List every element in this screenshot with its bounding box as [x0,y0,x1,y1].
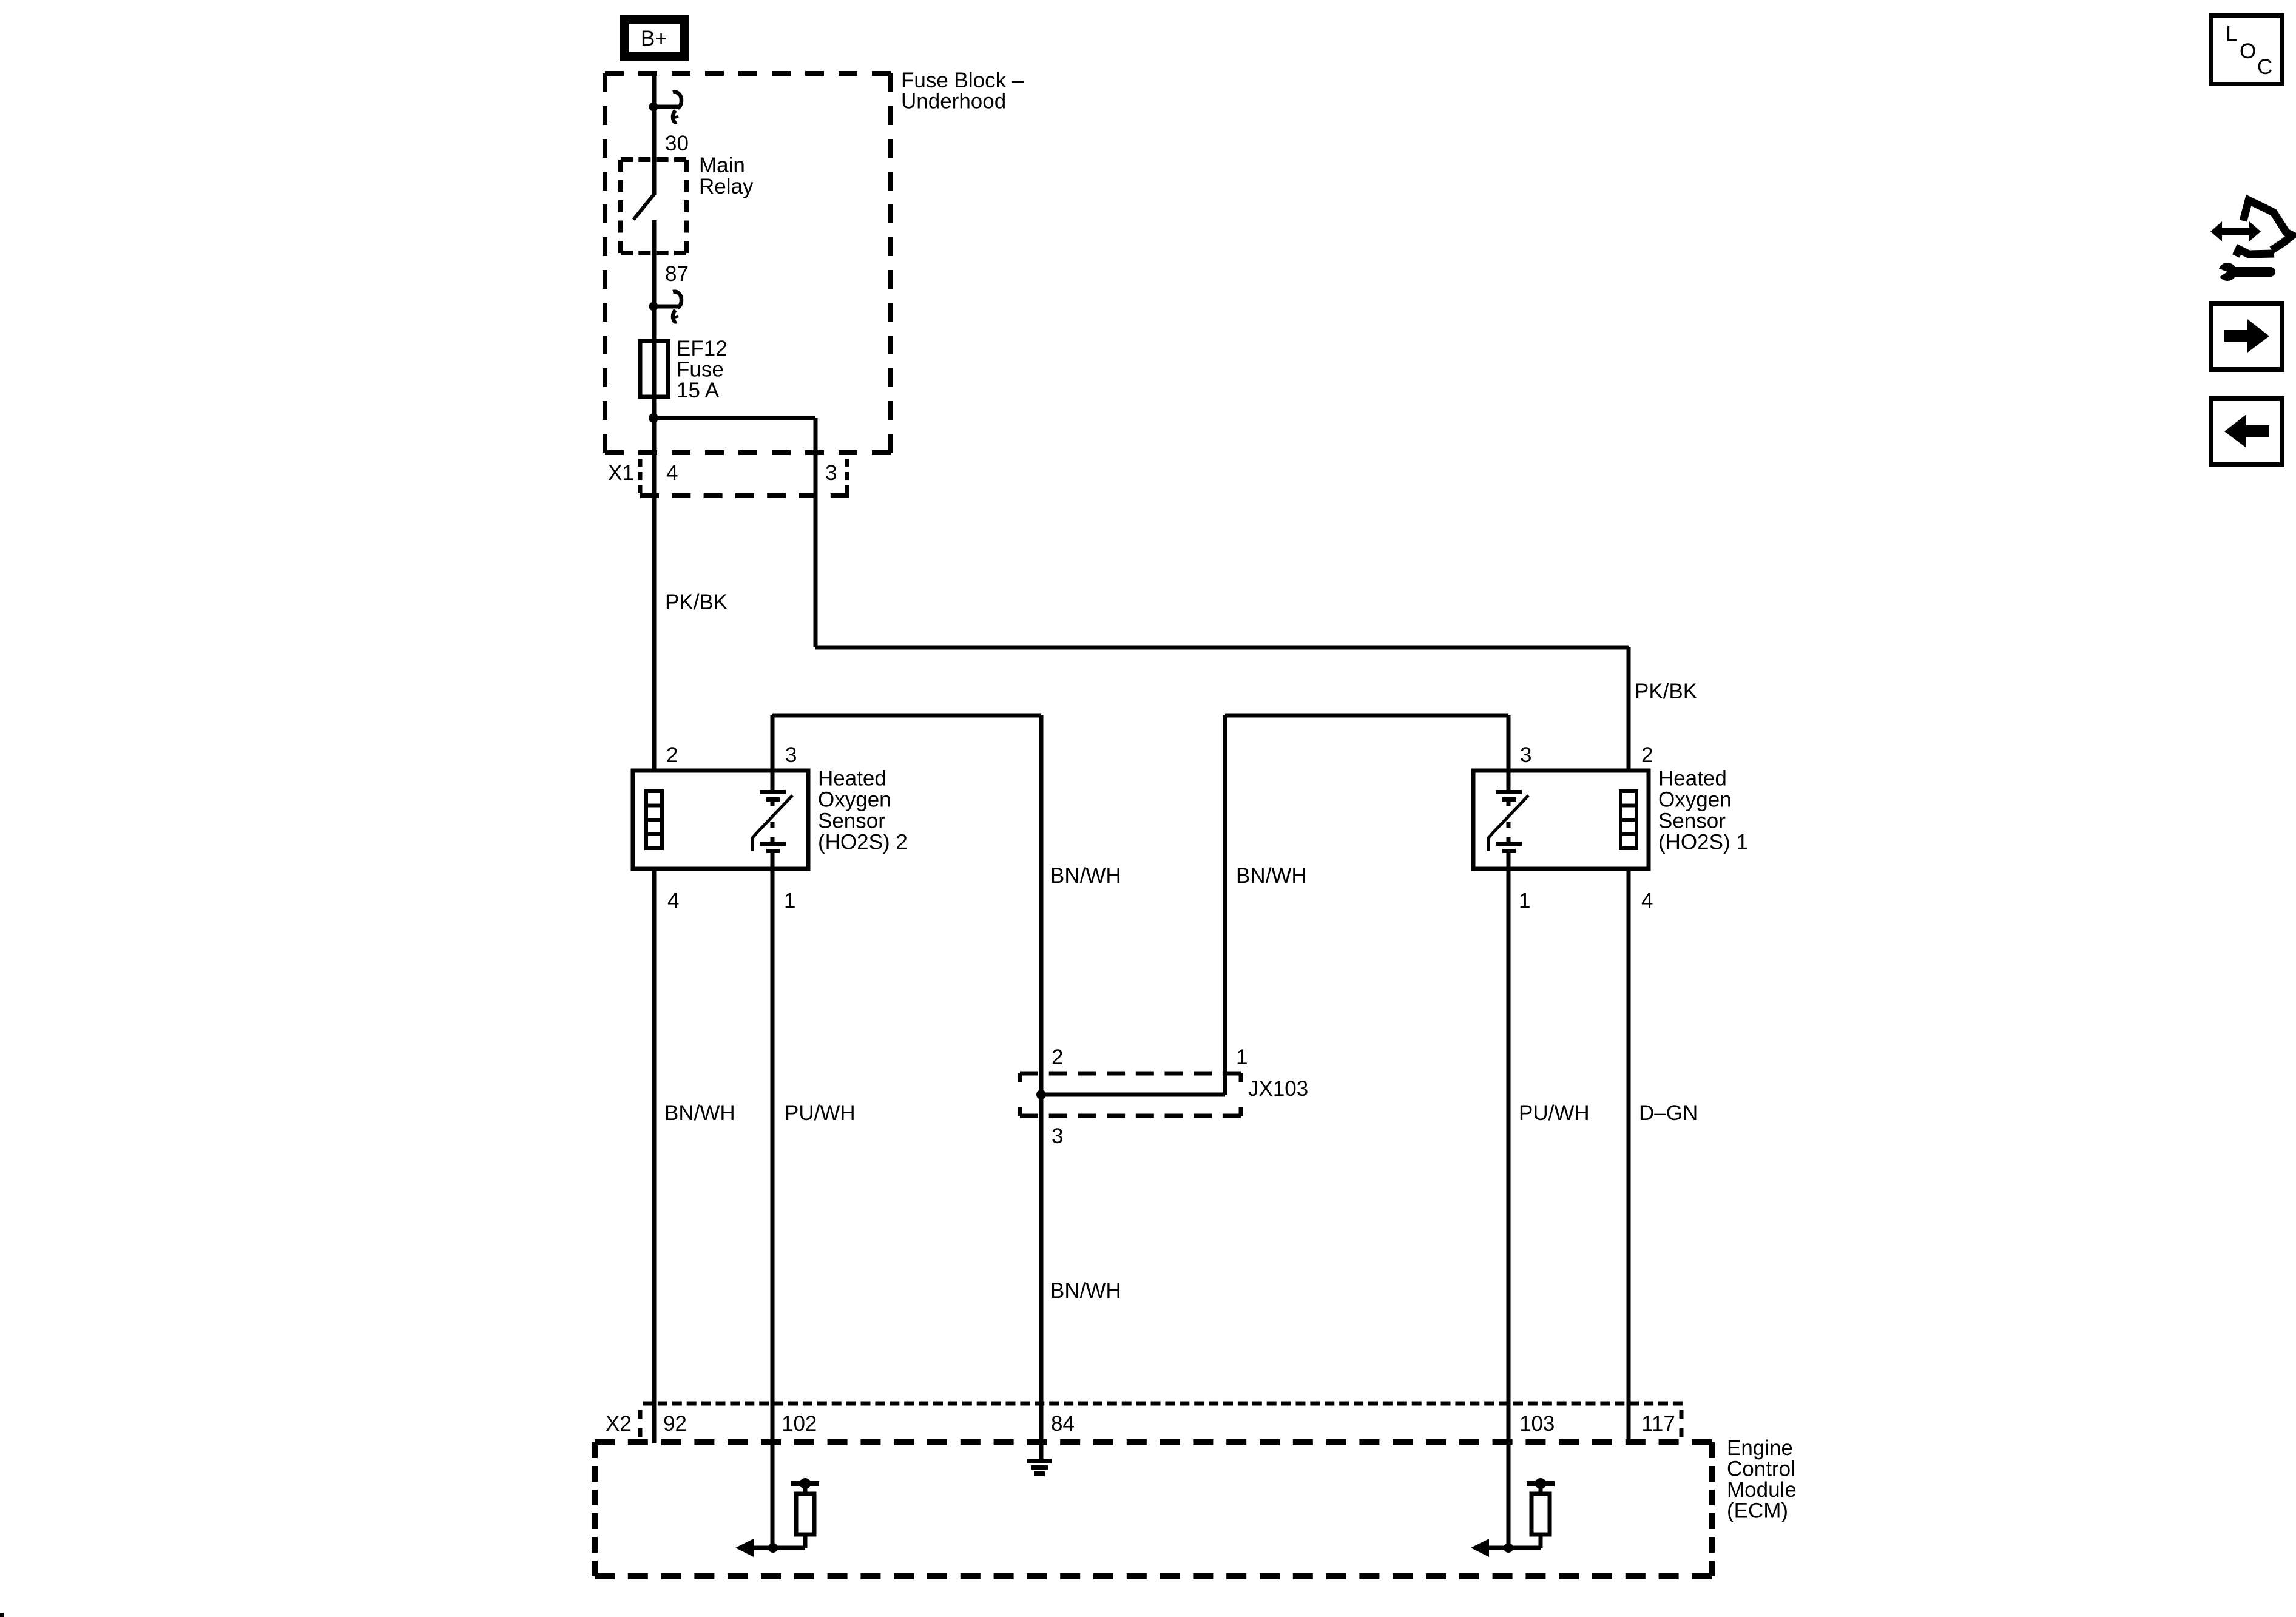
svg-text:2: 2 [1052,1045,1063,1069]
svg-text:103: 103 [1519,1412,1555,1436]
svg-text:Oxygen: Oxygen [1658,788,1732,812]
svg-text:O: O [2240,39,2256,63]
svg-text:PU/WH: PU/WH [785,1101,856,1125]
svg-text:(ECM): (ECM) [1727,1499,1788,1523]
svg-text:L: L [2226,22,2237,46]
svg-text:BN/WH: BN/WH [664,1101,735,1125]
svg-text:(HO2S) 1: (HO2S) 1 [1658,831,1748,854]
svg-text:Engine: Engine [1727,1436,1793,1460]
svg-text:3: 3 [785,743,797,767]
svg-text:Fuse: Fuse [677,358,724,382]
svg-text:BN/WH: BN/WH [1050,864,1121,888]
svg-text:D–GN: D–GN [1639,1101,1698,1125]
svg-text:87: 87 [665,262,689,286]
svg-text:C: C [2257,55,2272,79]
svg-text:Relay: Relay [699,175,754,198]
svg-text:Oxygen: Oxygen [818,788,891,812]
svg-text:1: 1 [784,889,795,913]
svg-text:92: 92 [663,1412,687,1436]
svg-text:4: 4 [667,889,679,913]
svg-text:PK/BK: PK/BK [1635,680,1697,703]
svg-text:EF12: EF12 [677,337,728,360]
svg-text:B+: B+ [641,27,667,50]
svg-text:Control: Control [1727,1457,1795,1481]
svg-text:3: 3 [1052,1124,1063,1148]
svg-text:BN/WH: BN/WH [1050,1279,1121,1303]
svg-text:2: 2 [666,743,678,767]
svg-text:Sensor: Sensor [1658,809,1726,833]
svg-text:3: 3 [825,461,837,485]
svg-text:84: 84 [1051,1412,1075,1436]
svg-text:15 A: 15 A [677,379,720,402]
svg-text:30: 30 [665,132,689,155]
svg-text:1: 1 [1236,1045,1248,1069]
svg-text:Main: Main [699,154,745,177]
svg-text:X2: X2 [606,1412,632,1436]
svg-text:4: 4 [1641,889,1653,913]
svg-text:117: 117 [1641,1412,1675,1436]
svg-text:PK/BK: PK/BK [665,590,728,614]
svg-text:1: 1 [1519,889,1530,913]
svg-text:(HO2S) 2: (HO2S) 2 [818,831,908,854]
svg-text:BN/WH: BN/WH [1236,864,1307,888]
svg-text:Module: Module [1727,1478,1797,1502]
svg-text:2: 2 [1641,743,1653,767]
svg-text:Fuse Block –: Fuse Block – [901,69,1024,92]
svg-text:4: 4 [666,461,678,485]
svg-text:JX103: JX103 [1248,1077,1308,1101]
svg-text:Heated: Heated [1658,767,1727,791]
svg-text:Underhood: Underhood [901,90,1006,113]
svg-text:Heated: Heated [818,767,886,791]
svg-text:Sensor: Sensor [818,809,885,833]
svg-text:PU/WH: PU/WH [1519,1101,1590,1125]
svg-text:3: 3 [1520,743,1531,767]
svg-text:X1: X1 [608,461,634,485]
svg-text:102: 102 [782,1412,817,1436]
